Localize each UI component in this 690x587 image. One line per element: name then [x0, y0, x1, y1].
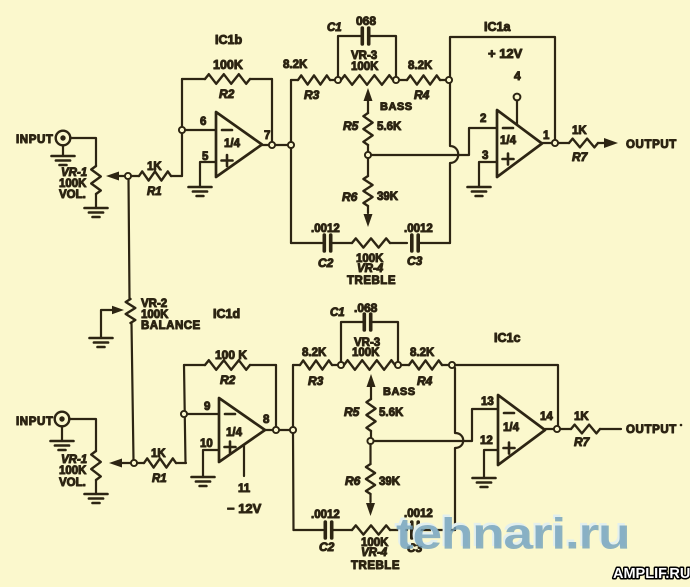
IC1a output wire	[542, 142, 569, 144]
node: pin 9 tap junction	[181, 411, 187, 417]
svg-text:R6: R6	[345, 474, 361, 488]
svg-text:C1: C1	[327, 22, 342, 34]
op-amp IC1d (1/4)	[200, 398, 270, 462]
potentiometer VR-3 100K BASS (bottom)	[344, 337, 395, 370]
watermark tehnari.ru	[394, 507, 629, 558]
feedback wire to IC1c output	[455, 365, 558, 426]
svg-text:4: 4	[514, 69, 521, 83]
output arrow (top)	[598, 138, 618, 148]
svg-text:.0012: .0012	[311, 223, 340, 235]
potentiometer VR-2 100K BALANCE	[126, 298, 201, 332]
resistor R4 8.2K (top)	[399, 60, 446, 102]
svg-text:068: 068	[356, 14, 376, 28]
wire bottom R2 down to IC1d output	[275, 365, 277, 430]
svg-text:1K: 1K	[574, 411, 589, 423]
resistor R3 8.2K (top)	[283, 59, 335, 102]
node: bottom R5 / R6 / IC1c input	[367, 438, 373, 444]
svg-text:3: 3	[482, 150, 488, 162]
svg-text:C2: C2	[318, 256, 334, 270]
svg-text:1/4: 1/4	[224, 138, 241, 150]
wire jack to VR-1 bottom	[69, 419, 96, 451]
wire R5-R6 node to pin 2 of IC1a	[371, 113, 497, 155]
capacitor C1 .068 (bottom)	[330, 301, 398, 362]
node: R3 / VR-3 / C1 left	[335, 77, 341, 83]
watermark AMPLIF.RU	[613, 566, 690, 582]
svg-text:IC1a: IC1a	[484, 20, 511, 34]
wire output node up to R3	[290, 80, 292, 142]
svg-text:C1: C1	[330, 307, 345, 319]
svg-text:.0012: .0012	[404, 223, 433, 235]
op-amp IC1a (1/4)	[482, 110, 550, 177]
label IC1d	[213, 307, 240, 321]
svg-text:1/4: 1/4	[226, 427, 243, 439]
svg-text:14: 14	[540, 411, 553, 423]
label OUTPUT (top)	[626, 139, 677, 151]
svg-text:R3: R3	[308, 374, 324, 388]
node: IC1c output	[554, 426, 560, 432]
svg-text:39K: 39K	[379, 476, 401, 488]
svg-text:1/4: 1/4	[503, 422, 520, 434]
svg-text:R4: R4	[414, 88, 430, 102]
VR-3 wiper arrow BASS (top)	[364, 88, 413, 113]
svg-text:100K: 100K	[351, 61, 379, 73]
svg-text:100K: 100K	[59, 465, 87, 477]
pin 11 wire of IC1d	[238, 445, 251, 495]
resistor R5 5.6K (bottom)	[344, 399, 404, 438]
wire R2 down to IC1b output	[271, 79, 273, 145]
resistor R2 100K (bottom feedback)	[184, 348, 276, 387]
wire bottom VR-1 to ground	[85, 480, 108, 503]
svg-text:R5: R5	[344, 405, 360, 419]
svg-text:+ 12V: + 12V	[488, 46, 523, 61]
svg-text:5.6K: 5.6K	[377, 121, 402, 133]
bottom R6 wiper arrow to VR-4	[366, 503, 375, 516]
svg-text:AMPLIF.RU: AMPLIF.RU	[613, 566, 690, 582]
svg-text:R2: R2	[220, 373, 236, 387]
svg-text:1: 1	[543, 130, 550, 142]
IC1c output wire	[545, 428, 571, 430]
pin 12 wire and ground (IC1c)	[473, 450, 499, 487]
resistor R7 1K (top)	[569, 125, 598, 164]
potentiometer VR-1 100K VOL (bottom channel)	[59, 451, 101, 489]
svg-text:INPUT: INPUT	[16, 134, 54, 146]
wire bottom output node down to C2	[292, 433, 295, 530]
power +12V label	[488, 46, 523, 61]
node: VR-1 wiper / R1 / balance line junction (top)	[125, 173, 131, 179]
feedback top wire to IC1a output	[450, 37, 555, 140]
wire output node down to C2	[290, 148, 292, 243]
wire to pin 9	[187, 401, 219, 414]
svg-text:TREBLE: TREBLE	[351, 560, 400, 572]
wire bottom R5-R6 node to pin 13 of IC1c	[374, 396, 499, 441]
resistor R3 8.2K (bottom)	[293, 347, 338, 388]
potentiometer VR-1 100K VOL (top channel)	[59, 166, 101, 201]
ground at VR-2 wiper	[90, 338, 113, 347]
resistor R4 8.2K (bottom)	[401, 347, 449, 388]
feedback wire bottom C3 up to R4 node with hop	[455, 368, 463, 530]
VR-3 wiper arrow BASS (bottom)	[367, 374, 416, 399]
svg-text:8: 8	[263, 414, 270, 426]
svg-text:C2: C2	[319, 540, 335, 554]
R6 wiper arrow to VR-4 (top)	[364, 214, 373, 227]
svg-text:1/4: 1/4	[500, 135, 517, 147]
pin 4 of IC1a	[514, 69, 521, 124]
capacitor C2 .0012 (top)	[291, 223, 340, 270]
svg-text:TREBLE: TREBLE	[347, 275, 396, 287]
capacitor C1 068 (top)	[327, 14, 396, 77]
op-amp IC1c (1/4)	[480, 395, 553, 465]
svg-text:8.2K: 8.2K	[302, 347, 327, 359]
svg-text:INPUT: INPUT	[16, 416, 54, 428]
svg-text:1K: 1K	[147, 161, 162, 173]
svg-text:R1: R1	[152, 473, 167, 485]
potentiometer VR-4 100K TREBLE (bottom)	[332, 525, 407, 572]
label OUTPUT (bottom)	[626, 424, 682, 436]
wire VR-1 to ground	[85, 194, 108, 217]
svg-text:10: 10	[200, 438, 213, 450]
svg-text:.0012: .0012	[311, 509, 340, 521]
pin 5 wire and ground (IC1b)	[189, 162, 217, 196]
resistor R7 1K (bottom)	[571, 411, 621, 449]
resistor R2 100K (top channel feedback)	[182, 58, 272, 101]
node: IC1d output / R3 / C2	[290, 427, 296, 433]
resistor R1 1K (top channel)	[131, 161, 182, 198]
svg-text:R3: R3	[304, 88, 320, 102]
node: IC1b output / R3 / C2	[288, 142, 294, 148]
node: bottom R4 / feedback	[449, 362, 455, 368]
svg-text:IC1b: IC1b	[215, 33, 242, 47]
svg-text:12: 12	[480, 435, 493, 447]
svg-text:2: 2	[480, 113, 486, 125]
wire to pin 6	[185, 116, 216, 130]
balance line from top R1 node to bottom R1 node	[129, 179, 134, 460]
svg-text:OUTPUT: OUTPUT	[626, 424, 677, 436]
resistor R1 1K (bottom channel)	[137, 448, 186, 485]
input jack J1 (top channel)	[16, 131, 70, 146]
svg-text:VOL.: VOL.	[59, 477, 86, 489]
node: R4 / feedback	[446, 77, 452, 83]
svg-text:R5: R5	[343, 119, 359, 133]
svg-text:1K: 1K	[151, 448, 166, 460]
resistor R6 39K (top)	[342, 158, 399, 213]
node: pin 6 tap junction	[179, 127, 185, 133]
svg-text:tehnari.ru: tehnari.ru	[396, 510, 629, 559]
svg-text:8.2K: 8.2K	[408, 60, 433, 72]
svg-text:− 12V: − 12V	[227, 501, 262, 516]
ground at top input jack	[52, 145, 75, 165]
node: bottom R3 / VR-3 / C1 left	[338, 362, 344, 368]
node: IC1a output	[552, 140, 558, 146]
potentiometer VR-4 100K TREBLE (top)	[331, 238, 407, 287]
svg-text:IC1d: IC1d	[213, 307, 240, 321]
capacitor C3 .0012 (top)	[404, 223, 450, 268]
node: R5 / R6 / IC1a input	[365, 152, 371, 158]
op-amp IC1b (1/4)	[202, 112, 270, 177]
resistor R5 5.6K (top)	[343, 113, 402, 152]
svg-text:R1: R1	[147, 186, 162, 198]
svg-text:R6: R6	[342, 190, 358, 204]
svg-text:100K: 100K	[352, 347, 380, 359]
svg-text:9: 9	[204, 401, 210, 413]
svg-text:R7: R7	[574, 435, 591, 449]
wire R1 up to inverting node (top)	[181, 79, 183, 176]
ground at bottom input jack	[51, 426, 74, 450]
IC1d output wire	[265, 429, 293, 431]
svg-text:6: 6	[200, 116, 206, 128]
svg-text:BASS: BASS	[380, 101, 413, 113]
IC1b output wire	[262, 144, 291, 146]
svg-text:1K: 1K	[572, 125, 587, 137]
svg-text:R7: R7	[572, 150, 589, 164]
label IC1a	[484, 20, 511, 34]
svg-text:VR-4: VR-4	[361, 547, 388, 559]
node: bottom wiper / R1 / balance line	[131, 460, 137, 466]
svg-text:R4: R4	[417, 374, 433, 388]
label IC1b	[215, 33, 242, 47]
svg-text:7: 7	[264, 130, 270, 142]
svg-text:VR-4: VR-4	[357, 263, 384, 275]
node: VR-3 / R4 / C1 right	[393, 77, 399, 83]
svg-text:39K: 39K	[377, 191, 399, 203]
VR-1 wiper arrow (top)	[106, 172, 125, 181]
node: IC1d output / R2	[273, 427, 279, 433]
input jack J2 (bottom channel)	[16, 412, 69, 428]
wire bottom output node up to R3	[292, 365, 294, 427]
node: IC1b output / R2	[269, 142, 275, 148]
capacitor C2 .0012 (bottom)	[294, 509, 340, 554]
pin 3 wire and ground (IC1a)	[468, 162, 498, 196]
svg-text:IC1c: IC1c	[494, 331, 520, 345]
svg-text:11: 11	[238, 483, 251, 495]
power -12V label	[227, 501, 262, 516]
wire jack to VR-1 top	[70, 138, 96, 166]
resistor R6 39K (bottom)	[345, 444, 401, 502]
wire bottom R1 up to inverting node	[184, 365, 186, 463]
svg-text:13: 13	[481, 396, 494, 408]
svg-text:100 K: 100 K	[215, 348, 247, 362]
node: bottom VR-3 / R4 / C1 right	[395, 362, 401, 368]
svg-text:R2: R2	[219, 87, 235, 101]
svg-text:.068: .068	[354, 301, 378, 315]
svg-text:VOL.: VOL.	[59, 189, 86, 201]
svg-text:8.2K: 8.2K	[410, 347, 435, 359]
capacitor C3 .0012 (bottom)	[404, 508, 455, 555]
svg-text:100K: 100K	[213, 58, 243, 72]
feedback wire C3 up to R4 node with hop over pin-2 wire	[450, 80, 458, 243]
svg-text:OUTPUT: OUTPUT	[626, 139, 677, 151]
svg-text:8.2K: 8.2K	[283, 59, 308, 71]
label IC1c	[494, 331, 520, 345]
svg-text:5.6K: 5.6K	[379, 407, 404, 419]
svg-text:BASS: BASS	[383, 386, 416, 398]
VR-2 wiper arrow	[101, 306, 124, 338]
VR-1 wiper arrow (bottom)	[109, 459, 131, 468]
potentiometer VR-3 100K BASS (top)	[341, 50, 393, 85]
pin 10 wire and ground (IC1d)	[192, 450, 220, 486]
svg-text:BALANCE: BALANCE	[141, 320, 201, 332]
svg-text:C3: C3	[407, 254, 423, 268]
